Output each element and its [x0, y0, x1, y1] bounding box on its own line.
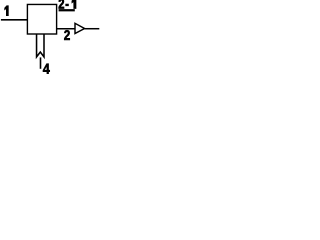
pin label 2-1 hyphen — [66, 4, 69, 6]
signal-flow triangle (open amplifier arrow) — [75, 23, 85, 33]
wire pin 2 (output continuation) — [85, 28, 100, 30]
pin label 2 — [64, 30, 70, 40]
pin label 4 — [43, 64, 50, 74]
pin 2-1 stub underline — [59, 9, 75, 11]
wire pin 4 (bottom) — [40, 57, 42, 68]
flag / swallowtail arrow on bottom pin — [37, 34, 44, 57]
block U1 body — [27, 4, 56, 34]
wire pin 2 (right output to buffer) — [57, 28, 75, 30]
pin label 2-1 digit 2 — [59, 0, 64, 8]
pin label 2-1 digit 1 — [72, 0, 76, 8]
pin label 1 — [5, 6, 9, 16]
wire pin 1 (left input) — [1, 19, 28, 21]
background — [0, 0, 100, 81]
